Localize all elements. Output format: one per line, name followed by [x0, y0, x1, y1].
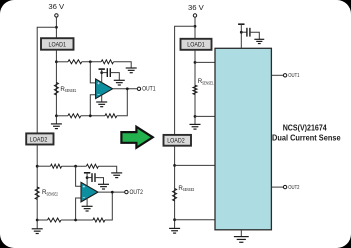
svg-text:SENSE1: SENSE1 — [65, 88, 77, 93]
svg-text:LOAD1: LOAD1 — [49, 41, 67, 48]
svg-text:36 V: 36 V — [48, 2, 65, 11]
svg-text:LOAD2: LOAD2 — [30, 136, 48, 143]
svg-text:SENSE2: SENSE2 — [46, 191, 58, 196]
svg-text:SENSE1: SENSE1 — [202, 80, 214, 85]
svg-text:LOAD2: LOAD2 — [167, 138, 185, 145]
svg-text:LOAD1: LOAD1 — [187, 42, 205, 49]
svg-text:OUT2: OUT2 — [130, 190, 144, 196]
svg-text:OUT2: OUT2 — [288, 185, 299, 191]
svg-text:SENSE2: SENSE2 — [183, 187, 195, 192]
svg-text:36 V: 36 V — [188, 3, 205, 12]
svg-text:NCS(V)21674: NCS(V)21674 — [283, 123, 328, 132]
svg-text:Dual Current Sense: Dual Current Sense — [272, 134, 341, 143]
svg-text:OUT1: OUT1 — [288, 73, 299, 79]
svg-text:OUT1: OUT1 — [142, 87, 156, 93]
